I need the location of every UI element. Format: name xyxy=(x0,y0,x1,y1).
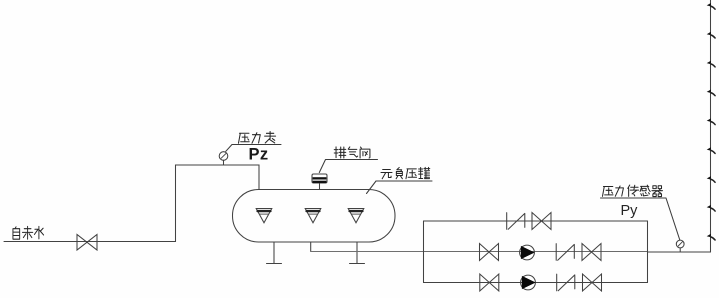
svg-text:Py: Py xyxy=(621,203,639,219)
svg-text:Pz: Pz xyxy=(249,146,269,164)
